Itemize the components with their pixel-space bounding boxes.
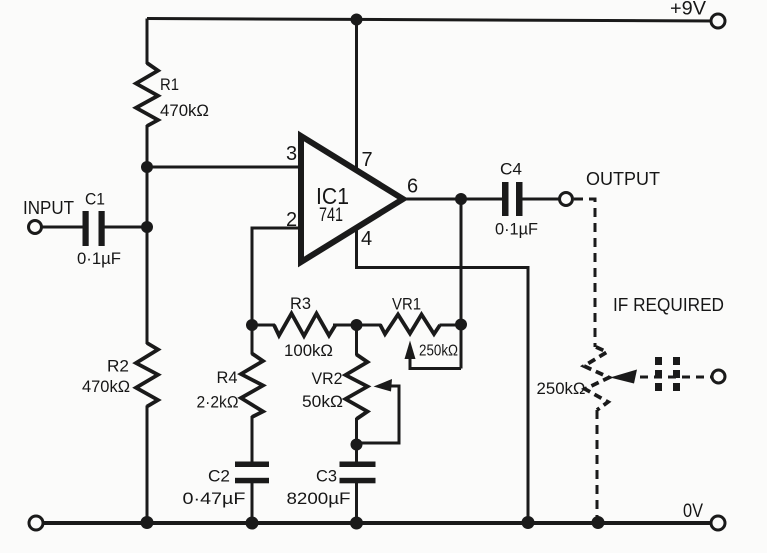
optional potentiometer 250k body (dashed): [584, 347, 609, 410]
wire C1 to node: [105, 226, 148, 229]
node VR1 right: [455, 319, 467, 331]
wire input node down to R2: [146, 227, 149, 344]
VR1 wiper arrow: [405, 341, 462, 369]
wire VR1 left: [357, 324, 382, 327]
svg-text:C1: C1: [85, 190, 105, 209]
wire R3 to node: [333, 324, 357, 327]
svg-text:R2: R2: [107, 357, 129, 376]
svg-text:IF REQUIRED: IF REQUIRED: [613, 295, 724, 315]
svg-text:OUTPUT: OUTPUT: [586, 169, 660, 189]
node C1/input: [141, 221, 153, 233]
svg-text:7: 7: [362, 149, 373, 171]
svg-text:VR1: VR1: [392, 295, 421, 314]
svg-text:INPUT: INPUT: [23, 198, 74, 218]
wire pin 7: [355, 19, 358, 172]
svg-text:6: 6: [407, 176, 418, 198]
wire 0V bottom rail: [43, 521, 711, 525]
wire pin 2: [252, 228, 301, 325]
svg-text:8200µF: 8200µF: [287, 489, 351, 508]
node R3 left: [246, 319, 258, 331]
svg-text:C2: C2: [208, 467, 230, 486]
wire C3 bottom to rail: [355, 483, 358, 523]
wire VR2 bottom to node: [355, 418, 358, 463]
resistor R3: [274, 314, 336, 337]
dashed wire wiper to terminal: [640, 376, 711, 379]
svg-text:3: 3: [286, 143, 297, 165]
optional pot wiper arrow: [610, 370, 637, 384]
svg-text:R1: R1: [160, 75, 179, 94]
svg-text:2·2kΩ: 2·2kΩ: [197, 393, 239, 412]
svg-text:0·1µF: 0·1µF: [495, 220, 538, 239]
node R3/VR2: [351, 319, 363, 331]
wire R2 to bottom rail: [146, 406, 149, 523]
wire +9V top rail: [147, 19, 718, 22]
svg-text:741: 741: [319, 205, 343, 226]
potentiometer VR2 body: [346, 355, 368, 420]
op-amp U1 triangle: [301, 136, 403, 262]
svg-text:C3: C3: [316, 467, 337, 486]
wire node down to VR2: [355, 325, 358, 356]
svg-text:4: 4: [361, 228, 372, 250]
svg-text:250kΩ: 250kΩ: [537, 379, 586, 398]
svg-text:0·47µF: 0·47µF: [183, 489, 246, 508]
svg-text:C4: C4: [500, 160, 522, 179]
svg-text:VR2: VR2: [312, 369, 343, 388]
node R2 bottom rail: [141, 516, 154, 529]
svg-text:2: 2: [286, 209, 297, 231]
resistor R1: [136, 63, 158, 126]
wire pin 4 to 0V: [357, 228, 529, 523]
dashed wire OUTPUT to optional pot: [574, 199, 595, 347]
wire node down to R4: [251, 325, 254, 355]
terminal optional pot wiper: [712, 370, 725, 383]
wire C2 bottom to rail: [251, 483, 254, 523]
wire input terminal to C1: [42, 226, 83, 229]
wire R4 to C2: [251, 416, 254, 463]
wire R1 bottom to node: [146, 125, 149, 167]
wire node to R3: [252, 324, 275, 327]
terminal bottom left: [29, 516, 43, 530]
terminal OUTPUT: [560, 193, 573, 206]
terminal +9V: [711, 14, 725, 28]
node C2 rail: [246, 517, 259, 530]
svg-text:R4: R4: [217, 368, 238, 387]
resistor R4: [241, 354, 263, 418]
svg-text:250kΩ: 250kΩ: [419, 343, 458, 360]
svg-text:470kΩ: 470kΩ: [82, 377, 130, 396]
svg-text:0·1µF: 0·1µF: [77, 249, 121, 268]
node pin4 rail: [522, 516, 535, 529]
terminal INPUT: [29, 221, 42, 234]
dashed capacitor (if required): [659, 357, 677, 395]
svg-text:100kΩ: 100kΩ: [284, 341, 333, 360]
svg-text:50kΩ: 50kΩ: [302, 392, 343, 411]
wire pin 3: [147, 166, 301, 169]
wire VR1 node up to output junction: [460, 199, 463, 369]
wire node to input junction: [146, 167, 149, 227]
capacitor C3: [340, 462, 376, 484]
wire C4 to output terminal: [523, 198, 560, 201]
node C3 rail: [350, 517, 363, 530]
capacitor C4: [502, 182, 523, 216]
node pin7 on +9V rail: [351, 14, 363, 26]
node R1/pin3: [141, 161, 153, 173]
node output junction: [455, 193, 467, 205]
wire VR1 right to node: [440, 324, 462, 327]
wire R1 top stub: [146, 19, 149, 65]
capacitor C2: [235, 462, 269, 484]
dashed wire pot to 0V rail: [596, 410, 599, 521]
resistor R2: [136, 343, 158, 407]
potentiometer VR1 body: [380, 315, 440, 335]
svg-text:470kΩ: 470kΩ: [160, 101, 209, 120]
capacitor C1: [83, 211, 105, 246]
svg-text:R3: R3: [290, 294, 311, 313]
node VR2 bottom: [351, 439, 363, 451]
node optional pot rail: [592, 516, 605, 529]
VR2 wiper arrow: [357, 379, 399, 443]
svg-text:+9V: +9V: [670, 0, 706, 20]
wire op-amp output: [403, 198, 502, 201]
terminal 0V: [711, 516, 725, 530]
svg-text:0V: 0V: [683, 501, 703, 522]
